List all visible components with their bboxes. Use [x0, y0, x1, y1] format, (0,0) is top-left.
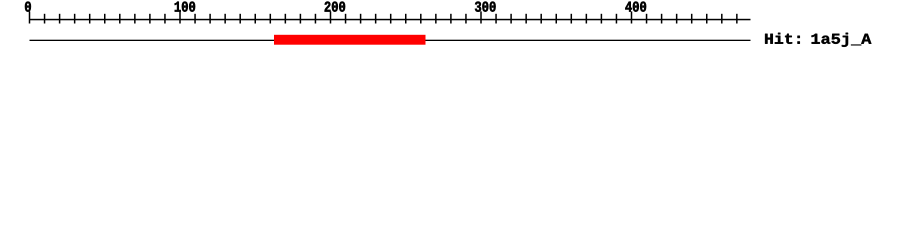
minor tick 70	[134, 14, 136, 24]
hit alignment bar	[274, 35, 426, 45]
background	[0, 0, 900, 60]
minor tick 410	[646, 14, 648, 24]
minor tick 240	[390, 14, 392, 24]
query sequence line	[30, 40, 751, 41]
minor tick 380	[601, 14, 603, 24]
minor tick 120	[209, 14, 211, 24]
major tick 200	[330, 11, 332, 23]
minor tick 90	[164, 14, 166, 24]
minor tick 110	[194, 14, 196, 24]
minor tick 470	[736, 14, 738, 24]
ruler axis line	[30, 19, 751, 21]
ruler label 400	[625, 2, 646, 12]
minor tick 160	[270, 14, 272, 24]
minor tick 460	[721, 14, 723, 24]
minor tick 150	[255, 14, 257, 24]
ruler label 0	[25, 2, 31, 12]
major tick 300	[480, 11, 482, 23]
minor tick 170	[285, 14, 287, 24]
minor tick 30	[74, 14, 76, 24]
minor tick 220	[360, 14, 362, 24]
ruler label 200	[325, 2, 345, 12]
major tick 400	[631, 11, 633, 23]
minor tick 350	[556, 14, 558, 24]
minor tick 290	[465, 14, 467, 24]
minor tick 450	[706, 14, 708, 24]
hit label text "Hit: 1a5j_A"	[765, 33, 871, 47]
minor tick 370	[586, 14, 588, 24]
minor tick 260	[420, 14, 422, 24]
minor tick 140	[239, 14, 241, 24]
minor tick 40	[89, 14, 91, 24]
minor tick 250	[405, 14, 407, 24]
major tick 0	[29, 11, 31, 23]
major tick 100	[179, 11, 181, 23]
minor tick 10	[44, 14, 46, 24]
minor tick 130	[224, 14, 226, 24]
minor tick 440	[691, 14, 693, 24]
minor tick 320	[510, 14, 512, 24]
minor tick 60	[119, 14, 121, 24]
minor tick 390	[616, 14, 618, 24]
minor tick 330	[525, 14, 527, 24]
ruler label 300	[475, 2, 496, 12]
minor tick 360	[571, 14, 573, 24]
minor tick 190	[315, 14, 317, 24]
ruler label 100	[175, 2, 195, 12]
minor tick 230	[375, 14, 377, 24]
minor tick 280	[450, 14, 452, 24]
minor tick 270	[435, 14, 437, 24]
minor tick 420	[661, 14, 663, 24]
minor tick 20	[59, 14, 61, 24]
minor tick 80	[149, 14, 151, 24]
minor tick 310	[495, 14, 497, 24]
minor tick 210	[345, 14, 347, 24]
minor tick 50	[104, 14, 106, 24]
minor tick 430	[676, 14, 678, 24]
minor tick 180	[300, 14, 302, 24]
minor tick 340	[540, 14, 542, 24]
